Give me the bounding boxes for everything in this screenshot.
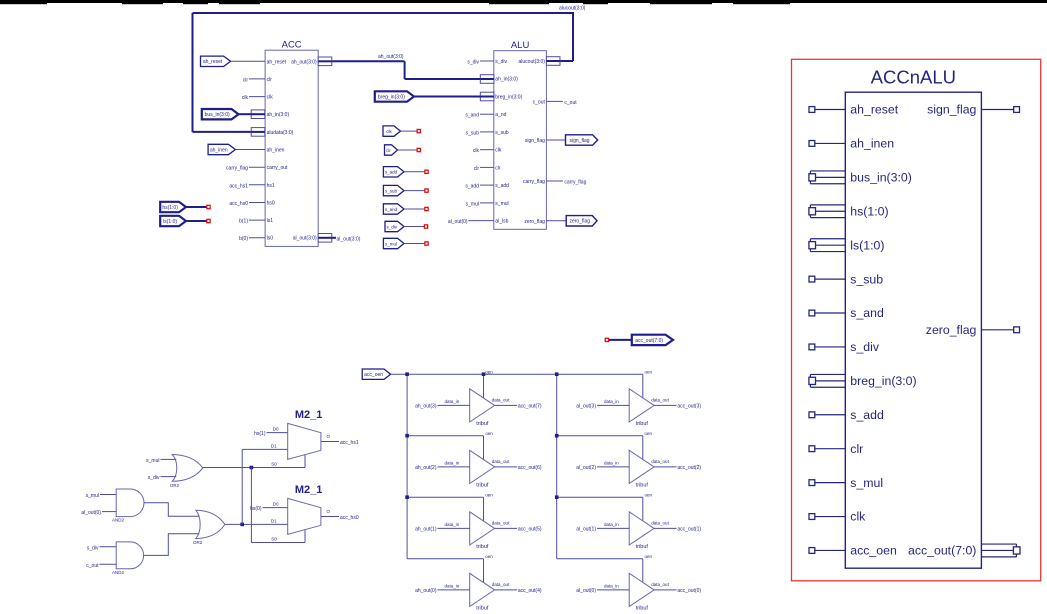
svg-text:clk: clk (495, 148, 502, 154)
svg-text:s_div: s_div (467, 60, 479, 66)
svg-text:zero_flag: zero_flag (524, 219, 545, 225)
svg-text:clr: clr (495, 165, 501, 171)
svg-text:s_sub: s_sub (850, 272, 883, 286)
svg-text:aludata(3:0): aludata(3:0) (267, 130, 294, 136)
svg-text:data_in: data_in (445, 584, 460, 589)
svg-text:M2_1: M2_1 (295, 484, 323, 496)
svg-text:data_in: data_in (445, 399, 460, 404)
svg-text:data_out: data_out (651, 398, 669, 403)
svg-text:acc_out(3): acc_out(3) (677, 404, 701, 410)
svg-text:acc_hs1: acc_hs1 (340, 440, 359, 446)
svg-text:carry_flag: carry_flag (523, 179, 545, 185)
svg-text:ah_inen: ah_inen (267, 148, 285, 154)
svg-text:acc_out(4): acc_out(4) (518, 588, 542, 594)
svg-text:s_mul: s_mul (495, 201, 508, 207)
svg-text:data_out: data_out (492, 459, 510, 464)
svg-text:acc_out(6): acc_out(6) (518, 465, 542, 471)
svg-text:data_out: data_out (651, 459, 669, 464)
svg-text:data_in: data_in (604, 461, 619, 466)
svg-text:carry_flag: carry_flag (564, 180, 586, 186)
svg-text:clr: clr (850, 442, 863, 456)
svg-text:D1: D1 (271, 518, 277, 523)
svg-text:tribuf: tribuf (636, 421, 649, 427)
svg-text:s_and: s_and (465, 113, 479, 119)
svg-text:s_div: s_div (495, 59, 507, 65)
svg-text:acc_out(7): acc_out(7) (518, 404, 542, 410)
svg-text:tribuf: tribuf (636, 544, 649, 550)
svg-text:clk: clk (267, 95, 274, 101)
svg-text:s_add: s_add (465, 184, 479, 190)
svg-text:oen: oen (645, 492, 653, 497)
svg-text:hs(0): hs(0) (250, 506, 262, 512)
svg-text:ah_out(3): ah_out(3) (415, 404, 437, 410)
svg-text:ah_inen: ah_inen (850, 137, 894, 151)
svg-text:O: O (327, 509, 331, 514)
svg-text:hs1: hs1 (267, 183, 275, 189)
svg-text:M2_1: M2_1 (295, 409, 323, 421)
svg-text:acc_out(2): acc_out(2) (677, 465, 701, 471)
svg-text:s_mul: s_mul (850, 476, 883, 490)
svg-text:data_out: data_out (492, 398, 510, 403)
svg-text:ls1: ls1 (267, 218, 274, 224)
svg-text:oen: oen (485, 369, 493, 374)
svg-text:sign_flag: sign_flag (525, 138, 545, 144)
svg-text:ls(1:0): ls(1:0) (850, 238, 884, 252)
svg-text:acc_out(7:0): acc_out(7:0) (635, 338, 663, 344)
svg-text:carry_flag: carry_flag (226, 166, 248, 172)
svg-text:c_out: c_out (564, 100, 577, 106)
svg-text:clr: clr (267, 77, 273, 83)
svg-text:oen: oen (485, 431, 493, 436)
svg-text:oen: oen (485, 554, 493, 559)
svg-text:AND2: AND2 (112, 518, 125, 523)
svg-text:ah_reset: ah_reset (203, 59, 223, 65)
svg-text:clk: clk (386, 129, 392, 134)
svg-text:al_lsb: al_lsb (495, 219, 508, 225)
svg-text:s_div: s_div (850, 340, 880, 354)
svg-text:ALU: ALU (511, 40, 530, 51)
svg-text:ah_out(3:0): ah_out(3:0) (378, 54, 404, 60)
svg-text:s_mul: s_mul (146, 458, 159, 464)
svg-text:oen: oen (485, 492, 493, 497)
svg-text:ah_out(1): ah_out(1) (415, 527, 437, 533)
svg-text:acc_out(7:0): acc_out(7:0) (908, 544, 976, 558)
svg-text:al_out(0): al_out(0) (81, 510, 101, 516)
svg-text:acc_oen: acc_oen (364, 372, 383, 378)
svg-text:breg_in(3:0): breg_in(3:0) (495, 95, 522, 101)
svg-text:s_mul: s_mul (385, 241, 397, 246)
svg-text:carry_out: carry_out (267, 165, 288, 171)
svg-text:data_in: data_in (604, 522, 619, 527)
svg-text:s_mul: s_mul (466, 201, 479, 207)
svg-text:clk: clk (242, 95, 249, 101)
svg-text:s_sub: s_sub (385, 189, 398, 194)
svg-text:ah_in(3:0): ah_in(3:0) (495, 77, 518, 83)
svg-text:ah_out(0): ah_out(0) (415, 588, 437, 594)
svg-text:a_nd: a_nd (495, 112, 506, 118)
svg-text:sign_flag: sign_flag (569, 138, 589, 144)
svg-text:ls(1:0): ls(1:0) (163, 219, 177, 225)
svg-text:breg_in(3:0): breg_in(3:0) (850, 374, 916, 388)
svg-text:c_out: c_out (86, 563, 99, 569)
svg-text:O: O (327, 434, 331, 439)
svg-text:clr: clr (386, 148, 391, 153)
svg-text:s_mul: s_mul (86, 493, 99, 499)
svg-text:clk: clk (473, 148, 480, 154)
svg-text:s_and: s_and (385, 207, 398, 212)
svg-text:ah_reset: ah_reset (267, 59, 287, 65)
svg-text:D0: D0 (273, 427, 279, 432)
svg-text:clr: clr (243, 77, 249, 83)
svg-text:s_div: s_div (87, 545, 99, 551)
svg-text:al_out(1): al_out(1) (576, 527, 596, 533)
svg-text:S0: S0 (271, 536, 277, 541)
svg-text:al_out(2): al_out(2) (576, 465, 596, 471)
svg-text:tribuf: tribuf (476, 421, 489, 427)
svg-text:zero_flag: zero_flag (926, 323, 977, 337)
svg-text:ah_inen: ah_inen (210, 147, 228, 153)
svg-text:acc_oen: acc_oen (850, 544, 897, 558)
svg-text:ah_out(2): ah_out(2) (415, 465, 437, 471)
svg-text:oen: oen (645, 554, 653, 559)
svg-text:acc_out(1): acc_out(1) (677, 527, 701, 533)
svg-text:S0: S0 (271, 461, 277, 466)
svg-text:tribuf: tribuf (476, 605, 489, 611)
svg-text:s_add: s_add (385, 170, 398, 175)
svg-text:acc_hs1: acc_hs1 (229, 183, 248, 189)
svg-text:s_sub: s_sub (495, 130, 509, 136)
svg-text:tribuf: tribuf (476, 482, 489, 488)
svg-text:tribuf: tribuf (636, 605, 649, 611)
svg-text:b(0): b(0) (239, 236, 248, 242)
svg-text:data_in: data_in (604, 399, 619, 404)
svg-text:acc_hs0: acc_hs0 (229, 201, 248, 207)
svg-text:AND2: AND2 (112, 570, 125, 575)
svg-text:s_sub: s_sub (466, 130, 480, 136)
svg-text:OR2: OR2 (170, 483, 180, 488)
svg-text:sign_flag: sign_flag (927, 103, 976, 117)
svg-text:alucout(3:0): alucout(3:0) (518, 59, 545, 65)
svg-text:oen: oen (645, 431, 653, 436)
svg-text:ACCnALU: ACCnALU (871, 66, 956, 87)
svg-text:tribuf: tribuf (636, 482, 649, 488)
svg-text:oen: oen (645, 369, 653, 374)
svg-text:data_out: data_out (492, 521, 510, 526)
svg-text:hs(1:0): hs(1:0) (850, 204, 888, 218)
svg-text:al_out(3:0): al_out(3:0) (337, 236, 361, 242)
svg-text:s_div: s_div (386, 224, 397, 229)
svg-text:ah_reset: ah_reset (850, 103, 898, 117)
svg-text:c_out: c_out (533, 99, 546, 105)
svg-text:data_in: data_in (445, 522, 460, 527)
svg-text:data_out: data_out (651, 521, 669, 526)
svg-text:b(1): b(1) (239, 219, 248, 225)
svg-text:D0: D0 (273, 502, 279, 507)
svg-text:data_in: data_in (604, 584, 619, 589)
svg-text:breg_in(3:0): breg_in(3:0) (378, 94, 405, 100)
svg-text:acc_hs0: acc_hs0 (340, 515, 359, 521)
svg-text:data_out: data_out (492, 582, 510, 587)
svg-text:clk: clk (850, 510, 866, 524)
svg-text:ACC: ACC (282, 40, 302, 51)
svg-text:D1: D1 (271, 443, 277, 448)
svg-text:bus_in(3:0): bus_in(3:0) (205, 112, 230, 118)
svg-text:s_div: s_div (148, 475, 160, 481)
svg-text:clr: clr (474, 166, 480, 172)
svg-text:al_out(3:0): al_out(3:0) (293, 236, 317, 242)
svg-text:hs(1:0): hs(1:0) (162, 205, 178, 211)
svg-text:ah_out(3:0): ah_out(3:0) (291, 59, 317, 65)
svg-text:alucout(3:0): alucout(3:0) (559, 6, 586, 12)
svg-text:s_add: s_add (850, 408, 884, 422)
svg-text:data_in: data_in (445, 461, 460, 466)
svg-text:s_and: s_and (850, 306, 884, 320)
svg-text:hs(1): hs(1) (254, 431, 266, 437)
svg-text:hs0: hs0 (267, 201, 275, 207)
svg-text:s_add: s_add (495, 183, 509, 189)
svg-text:al_out(0): al_out(0) (576, 588, 596, 594)
svg-text:ah_in(3:0): ah_in(3:0) (267, 112, 290, 118)
svg-text:al_out(0): al_out(0) (448, 219, 468, 225)
svg-text:acc_out(5): acc_out(5) (518, 527, 542, 533)
svg-text:tribuf: tribuf (476, 544, 489, 550)
svg-text:acc_out(0): acc_out(0) (677, 588, 701, 594)
svg-text:zero_flag: zero_flag (569, 219, 590, 225)
svg-text:bus_in(3:0): bus_in(3:0) (850, 171, 912, 185)
svg-text:OR2: OR2 (193, 540, 203, 545)
svg-text:data_out: data_out (651, 582, 669, 587)
svg-text:al_out(3): al_out(3) (576, 404, 596, 410)
svg-text:ls0: ls0 (267, 236, 274, 242)
